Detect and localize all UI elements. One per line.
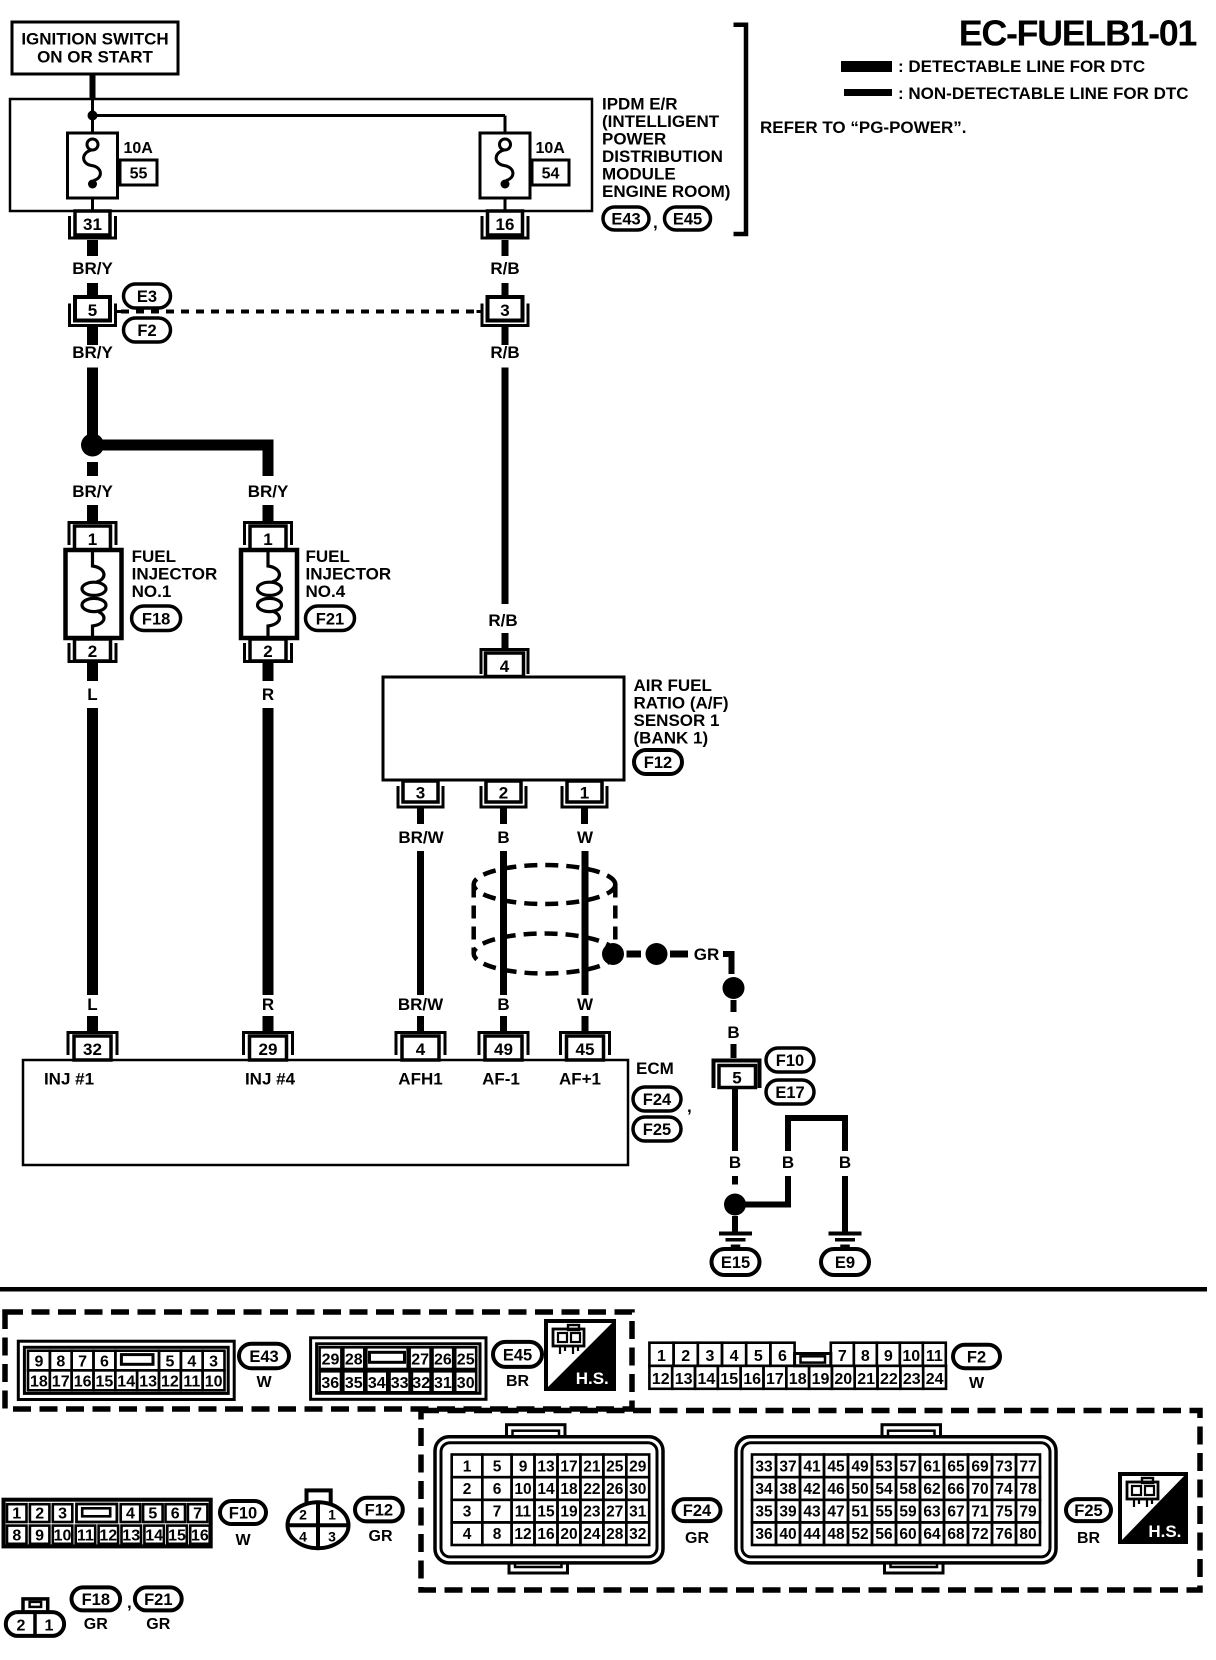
svg-text:L: L [87, 685, 97, 704]
svg-text:IGNITION SWITCH: IGNITION SWITCH [21, 30, 168, 49]
svg-text:11: 11 [77, 1528, 94, 1545]
svg-text:13: 13 [122, 1528, 140, 1545]
svg-text:4: 4 [463, 1526, 472, 1543]
svg-text:54: 54 [542, 166, 560, 183]
svg-text:23: 23 [903, 1371, 921, 1388]
svg-text:34: 34 [368, 1375, 386, 1392]
svg-text:25: 25 [457, 1352, 475, 1369]
svg-text:33: 33 [391, 1375, 409, 1392]
svg-text:F10: F10 [229, 1505, 257, 1523]
svg-text:E45: E45 [673, 211, 702, 229]
svg-text:W: W [235, 1532, 251, 1549]
svg-text:F12: F12 [644, 754, 672, 772]
svg-text:GR: GR [84, 1616, 108, 1633]
svg-text:W: W [577, 828, 594, 847]
svg-text:12: 12 [652, 1371, 670, 1388]
svg-text:L: L [87, 995, 97, 1014]
svg-text:66: 66 [947, 1481, 965, 1498]
svg-text:15: 15 [537, 1504, 555, 1521]
svg-text:3: 3 [328, 1529, 336, 1545]
svg-text:15: 15 [96, 1374, 114, 1391]
svg-text:1: 1 [45, 1618, 54, 1635]
svg-text:9: 9 [884, 1348, 893, 1365]
svg-text:BR: BR [506, 1373, 530, 1390]
svg-text:SENSOR 1: SENSOR 1 [634, 711, 720, 730]
svg-text:: NON-DETECTABLE LINE FOR DTC: : NON-DETECTABLE LINE FOR DTC [898, 84, 1189, 103]
svg-text:F18: F18 [142, 610, 170, 628]
svg-text:47: 47 [827, 1504, 844, 1521]
svg-text:2: 2 [681, 1348, 690, 1365]
svg-text:,: , [687, 1097, 692, 1116]
svg-text:5: 5 [88, 301, 97, 320]
svg-text:POWER: POWER [602, 130, 666, 149]
svg-text:8: 8 [12, 1528, 21, 1545]
svg-text:22: 22 [880, 1371, 898, 1388]
svg-text:R: R [262, 995, 274, 1014]
svg-text:70: 70 [971, 1481, 988, 1498]
svg-text:55: 55 [875, 1504, 893, 1521]
svg-text:46: 46 [827, 1481, 845, 1498]
svg-text:BR/W: BR/W [398, 828, 444, 847]
svg-text:14: 14 [117, 1374, 135, 1391]
svg-text:R/B: R/B [490, 259, 519, 278]
svg-text:77: 77 [1019, 1458, 1036, 1475]
svg-text:21: 21 [857, 1371, 875, 1388]
svg-text:FUEL: FUEL [132, 547, 176, 566]
svg-text:72: 72 [971, 1526, 988, 1543]
svg-text:E43: E43 [249, 1348, 278, 1366]
svg-text:W: W [969, 1375, 985, 1392]
svg-text:13: 13 [537, 1458, 555, 1475]
svg-text:DISTRIBUTION: DISTRIBUTION [602, 147, 723, 166]
svg-text:1: 1 [263, 530, 272, 549]
svg-text:19: 19 [812, 1371, 830, 1388]
svg-text:F25: F25 [1074, 1502, 1102, 1520]
svg-text:H.S.: H.S. [576, 1369, 609, 1388]
svg-text:: DETECTABLE LINE FOR DTC: : DETECTABLE LINE FOR DTC [898, 57, 1145, 76]
svg-text:3: 3 [500, 301, 509, 320]
svg-text:28: 28 [345, 1352, 363, 1369]
svg-text:2: 2 [17, 1618, 26, 1635]
svg-text:21: 21 [583, 1458, 601, 1475]
svg-text:7: 7 [493, 1504, 502, 1521]
svg-text:5: 5 [493, 1458, 502, 1475]
svg-text:10: 10 [902, 1348, 920, 1365]
svg-text:2: 2 [499, 784, 508, 803]
svg-text:8: 8 [861, 1348, 870, 1365]
svg-text:1: 1 [12, 1506, 21, 1523]
svg-text:14: 14 [698, 1371, 716, 1388]
svg-text:45: 45 [576, 1040, 595, 1059]
svg-text:E15: E15 [721, 1254, 750, 1272]
svg-text:29: 29 [322, 1352, 340, 1369]
svg-text:17: 17 [52, 1374, 70, 1391]
svg-text:65: 65 [947, 1458, 965, 1475]
svg-text:30: 30 [457, 1375, 475, 1392]
svg-text:36: 36 [321, 1375, 339, 1392]
svg-text:AF+1: AF+1 [559, 1070, 601, 1089]
svg-text:5: 5 [148, 1506, 157, 1523]
svg-text:1: 1 [463, 1458, 472, 1475]
svg-text:7: 7 [838, 1348, 847, 1365]
svg-text:E9: E9 [835, 1254, 855, 1272]
svg-text:5: 5 [165, 1354, 174, 1371]
svg-text:6: 6 [778, 1348, 787, 1365]
svg-text:13: 13 [139, 1374, 157, 1391]
svg-text:F2: F2 [137, 322, 156, 340]
svg-text:71: 71 [971, 1504, 989, 1521]
svg-text:1: 1 [88, 530, 97, 549]
svg-text:50: 50 [851, 1481, 868, 1498]
svg-text:B: B [497, 995, 509, 1014]
svg-text:GR: GR [369, 1528, 393, 1545]
svg-text:48: 48 [827, 1526, 845, 1543]
svg-text:36: 36 [755, 1526, 773, 1543]
svg-text:73: 73 [995, 1458, 1013, 1475]
svg-text:35: 35 [755, 1504, 773, 1521]
svg-text:BR: BR [1077, 1530, 1101, 1547]
svg-text:IPDM E/R: IPDM E/R [602, 95, 678, 114]
svg-text:16: 16 [496, 215, 515, 234]
svg-text:AFH1: AFH1 [398, 1070, 442, 1089]
svg-text:29: 29 [629, 1458, 647, 1475]
svg-text:INJECTOR: INJECTOR [306, 565, 392, 584]
svg-text:GR: GR [694, 945, 720, 964]
svg-text:INJ #1: INJ #1 [44, 1070, 94, 1089]
svg-text:B: B [497, 828, 509, 847]
svg-text:9: 9 [35, 1528, 44, 1545]
svg-text:E3: E3 [137, 288, 157, 306]
svg-text:55: 55 [130, 166, 148, 183]
svg-text:12: 12 [161, 1374, 179, 1391]
svg-text:2: 2 [299, 1507, 307, 1523]
svg-text:5: 5 [732, 1069, 741, 1088]
svg-text:4: 4 [299, 1529, 307, 1545]
svg-text:AIR FUEL: AIR FUEL [634, 676, 712, 695]
svg-text:10A: 10A [536, 140, 566, 157]
svg-text:28: 28 [606, 1526, 624, 1543]
svg-text:4: 4 [416, 1040, 426, 1059]
svg-text:2: 2 [263, 642, 272, 661]
svg-text:4: 4 [187, 1354, 196, 1371]
svg-text:ON OR START: ON OR START [37, 48, 153, 67]
svg-text:B: B [782, 1153, 794, 1172]
svg-text:NO.1: NO.1 [132, 582, 172, 601]
svg-text:59: 59 [899, 1504, 917, 1521]
svg-text:17: 17 [766, 1371, 784, 1388]
svg-text:43: 43 [803, 1504, 821, 1521]
svg-text:E43: E43 [611, 211, 640, 229]
svg-text:6: 6 [100, 1354, 109, 1371]
svg-text:E45: E45 [503, 1346, 532, 1364]
svg-text:F10: F10 [776, 1052, 804, 1070]
svg-text:7: 7 [193, 1506, 202, 1523]
svg-text:34: 34 [755, 1481, 773, 1498]
svg-text:39: 39 [779, 1504, 797, 1521]
svg-text:10A: 10A [124, 140, 154, 157]
svg-text:R: R [262, 685, 274, 704]
svg-text:BR/Y: BR/Y [72, 343, 113, 362]
svg-text:16: 16 [74, 1374, 92, 1391]
svg-text:20: 20 [834, 1371, 852, 1388]
svg-text:38: 38 [779, 1481, 797, 1498]
svg-text:E17: E17 [775, 1084, 804, 1102]
svg-text:16: 16 [743, 1371, 761, 1388]
svg-text:F2: F2 [967, 1348, 986, 1366]
svg-text:INJ #4: INJ #4 [245, 1070, 296, 1089]
svg-text:69: 69 [971, 1458, 989, 1475]
svg-text:BR/Y: BR/Y [72, 259, 113, 278]
svg-text:12: 12 [514, 1526, 531, 1543]
svg-text:R/B: R/B [490, 343, 519, 362]
svg-text:BR/Y: BR/Y [72, 482, 113, 501]
svg-text:18: 18 [789, 1371, 807, 1388]
svg-text:13: 13 [675, 1371, 693, 1388]
svg-text:41: 41 [803, 1458, 821, 1475]
svg-text:45: 45 [827, 1458, 845, 1475]
svg-text:ECM: ECM [636, 1059, 674, 1078]
svg-text:7: 7 [78, 1354, 87, 1371]
svg-text:B: B [839, 1153, 851, 1172]
svg-text:(INTELLIGENT: (INTELLIGENT [602, 112, 720, 131]
svg-text:3: 3 [416, 784, 425, 803]
svg-text:20: 20 [560, 1526, 577, 1543]
svg-text:2: 2 [88, 642, 97, 661]
svg-text:F12: F12 [365, 1502, 393, 1520]
svg-text:GR: GR [685, 1530, 709, 1547]
svg-text:F21: F21 [316, 610, 344, 628]
svg-text:40: 40 [779, 1526, 796, 1543]
svg-text:GR: GR [146, 1616, 170, 1633]
svg-text:15: 15 [720, 1371, 738, 1388]
svg-text:8: 8 [493, 1526, 502, 1543]
svg-text:11: 11 [183, 1374, 200, 1391]
svg-text:31: 31 [83, 215, 102, 234]
svg-text:24: 24 [926, 1371, 944, 1388]
svg-text:F24: F24 [683, 1502, 712, 1520]
svg-text:26: 26 [606, 1481, 624, 1498]
svg-text:10: 10 [54, 1528, 72, 1545]
svg-text:3: 3 [209, 1354, 218, 1371]
svg-text:74: 74 [995, 1481, 1013, 1498]
svg-text:8: 8 [56, 1354, 65, 1371]
svg-text:REFER TO “PG-POWER”.: REFER TO “PG-POWER”. [760, 118, 967, 137]
svg-text:1: 1 [580, 784, 589, 803]
svg-text:33: 33 [755, 1458, 773, 1475]
svg-text:W: W [256, 1374, 272, 1391]
svg-text:35: 35 [345, 1375, 363, 1392]
svg-text:44: 44 [803, 1526, 821, 1543]
svg-text:22: 22 [583, 1481, 600, 1498]
svg-text:ENGINE ROOM): ENGINE ROOM) [602, 182, 730, 201]
svg-text:53: 53 [875, 1458, 893, 1475]
svg-text:68: 68 [947, 1526, 965, 1543]
svg-text:RATIO (A/F): RATIO (A/F) [634, 694, 729, 713]
svg-text:INJECTOR: INJECTOR [132, 565, 218, 584]
svg-text:11: 11 [926, 1348, 943, 1365]
svg-text:18: 18 [30, 1374, 48, 1391]
svg-text:F24: F24 [643, 1091, 672, 1109]
svg-text:11: 11 [515, 1504, 532, 1521]
svg-text:W: W [577, 995, 594, 1014]
svg-text:4: 4 [730, 1348, 739, 1365]
svg-text:R/B: R/B [488, 611, 517, 630]
svg-text:17: 17 [560, 1458, 577, 1475]
svg-text:6: 6 [493, 1481, 502, 1498]
svg-text:EC-FUELB1-01: EC-FUELB1-01 [959, 13, 1198, 54]
svg-text:26: 26 [434, 1352, 452, 1369]
svg-text:61: 61 [923, 1458, 941, 1475]
svg-text:F18: F18 [82, 1591, 110, 1609]
svg-text:78: 78 [1019, 1481, 1037, 1498]
svg-text:BR/Y: BR/Y [248, 482, 289, 501]
svg-text:3: 3 [705, 1348, 714, 1365]
svg-text:16: 16 [191, 1528, 209, 1545]
svg-text:BR/W: BR/W [398, 995, 444, 1014]
svg-text:9: 9 [519, 1458, 528, 1475]
svg-text:23: 23 [583, 1504, 601, 1521]
svg-text:F25: F25 [643, 1121, 671, 1139]
svg-text:60: 60 [899, 1526, 916, 1543]
svg-text:42: 42 [803, 1481, 820, 1498]
svg-text:5: 5 [754, 1348, 763, 1365]
svg-text:4: 4 [500, 657, 510, 676]
svg-text:10: 10 [205, 1374, 223, 1391]
svg-text:15: 15 [168, 1528, 186, 1545]
svg-text:32: 32 [412, 1375, 430, 1392]
svg-text:31: 31 [629, 1504, 647, 1521]
svg-text:27: 27 [411, 1352, 429, 1369]
svg-text:3: 3 [463, 1504, 472, 1521]
svg-text:56: 56 [875, 1526, 893, 1543]
svg-text:31: 31 [434, 1375, 452, 1392]
svg-text:64: 64 [923, 1526, 941, 1543]
svg-text:H.S.: H.S. [1148, 1522, 1181, 1541]
svg-text:58: 58 [899, 1481, 917, 1498]
svg-text:2: 2 [35, 1506, 44, 1523]
svg-text:76: 76 [995, 1526, 1013, 1543]
svg-text:B: B [727, 1023, 739, 1042]
svg-text:30: 30 [629, 1481, 646, 1498]
svg-text:10: 10 [514, 1481, 531, 1498]
svg-text:25: 25 [606, 1458, 624, 1475]
svg-text:37: 37 [779, 1458, 796, 1475]
svg-text:67: 67 [947, 1504, 964, 1521]
svg-text:B: B [729, 1153, 741, 1172]
svg-text:MODULE: MODULE [602, 165, 676, 184]
svg-text:AF-1: AF-1 [482, 1070, 520, 1089]
svg-text:52: 52 [851, 1526, 868, 1543]
svg-text:14: 14 [145, 1528, 163, 1545]
svg-text:4: 4 [126, 1506, 135, 1523]
svg-text:2: 2 [463, 1481, 472, 1498]
svg-text:49: 49 [851, 1458, 869, 1475]
svg-text:75: 75 [995, 1504, 1013, 1521]
svg-text:32: 32 [83, 1040, 102, 1059]
svg-text:19: 19 [560, 1504, 578, 1521]
svg-text:29: 29 [259, 1040, 278, 1059]
svg-text:57: 57 [899, 1458, 916, 1475]
svg-text:24: 24 [583, 1526, 601, 1543]
svg-text:9: 9 [34, 1354, 43, 1371]
svg-text:,: , [653, 213, 658, 232]
svg-text:51: 51 [851, 1504, 869, 1521]
svg-text:(BANK 1): (BANK 1) [634, 729, 709, 748]
svg-text:32: 32 [629, 1526, 646, 1543]
svg-text:NO.4: NO.4 [306, 582, 346, 601]
svg-text:79: 79 [1019, 1504, 1037, 1521]
svg-text:63: 63 [923, 1504, 941, 1521]
svg-text:62: 62 [923, 1481, 940, 1498]
svg-text:12: 12 [99, 1528, 117, 1545]
svg-text:18: 18 [560, 1481, 578, 1498]
svg-text:14: 14 [537, 1481, 555, 1498]
svg-text:,: , [127, 1593, 132, 1612]
svg-text:6: 6 [171, 1506, 180, 1523]
svg-text:80: 80 [1019, 1526, 1036, 1543]
svg-text:27: 27 [606, 1504, 623, 1521]
svg-text:49: 49 [494, 1040, 513, 1059]
svg-text:1: 1 [328, 1507, 336, 1523]
svg-text:16: 16 [537, 1526, 555, 1543]
svg-text:FUEL: FUEL [306, 547, 350, 566]
svg-text:1: 1 [657, 1348, 666, 1365]
svg-text:54: 54 [875, 1481, 893, 1498]
svg-text:3: 3 [58, 1506, 67, 1523]
svg-text:F21: F21 [144, 1591, 172, 1609]
